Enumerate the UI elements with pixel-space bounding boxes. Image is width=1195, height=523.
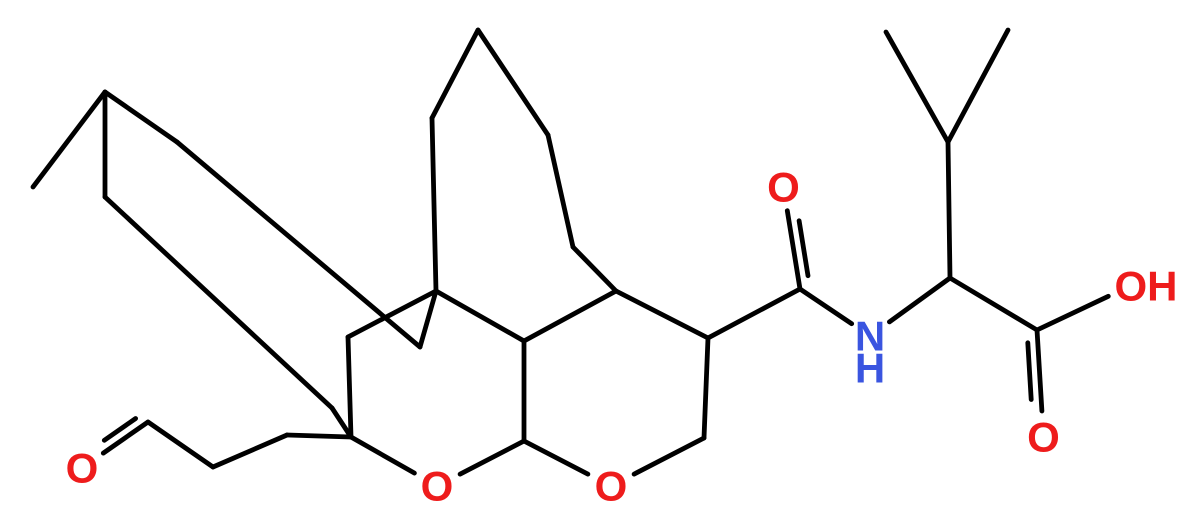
svg-text:O: O (421, 463, 454, 510)
bond Cy-Cx ring1 top edge (524, 291, 616, 341)
ketone C=O double bond (103, 419, 148, 454)
bond Capex-O2 (460, 441, 524, 474)
bond Capex-O3 (524, 441, 588, 474)
bond Clx-Cy ring2 top edge (436, 291, 524, 341)
bond C6-C5 long upper diagonal (177, 142, 420, 347)
amide C=O double bond (787, 211, 808, 289)
bond peak left vertical to Clx (432, 118, 436, 291)
bond acidC-OH (1037, 296, 1108, 330)
bond O3-Cr (634, 438, 704, 474)
bond C7-C6 (lambda right leg) (105, 92, 177, 142)
bond peak right mid segment (548, 135, 573, 247)
svg-text:O: O (767, 164, 800, 211)
bond Calpha-CH isopropyl stem (948, 142, 950, 278)
bond N-Calpha (889, 278, 950, 322)
bond peak right lower segment to Cx (573, 247, 616, 291)
bond Ca2-Cl (287, 435, 351, 437)
bond amideC-N (800, 289, 852, 324)
bond Cr-C1 ring1 right edge (704, 338, 708, 438)
bond C5-Clx connector (420, 291, 436, 347)
bond Ck-Ca1 zigzag (148, 422, 213, 467)
bond Cy-Capex shared vertical (522, 341, 527, 441)
bond Cl1-Clx ring2 upper-left edge (348, 291, 436, 337)
bond C7-C8 vertical (103, 92, 108, 197)
bond C1-amideC (708, 289, 800, 338)
bond Cx-C1 ring1 upper-right edge (616, 291, 708, 338)
bond Calpha-acidC (950, 278, 1037, 330)
bond peak left leg (432, 30, 478, 118)
bond CH-methyl right (948, 30, 1008, 142)
bond C7-methyl (top-left tip) (33, 92, 105, 187)
bond Ca1-Ca2 zigzag (213, 435, 287, 467)
bond C8-C9 long lower diagonal (105, 197, 332, 408)
svg-text:O: O (595, 463, 628, 510)
acid C=O double bond (1028, 330, 1042, 411)
bond peak right leg (478, 30, 548, 135)
bond C9-Cl connector (332, 408, 351, 437)
svg-text:O: O (1027, 414, 1060, 461)
svg-text:O: O (66, 445, 99, 492)
svg-text:H: H (855, 345, 885, 392)
svg-text:OH: OH (1115, 263, 1178, 310)
bond O2-Cl (351, 437, 414, 473)
bond Cl-Cl1 ring2 left edge (348, 337, 351, 437)
bond CH-methyl left (886, 32, 948, 142)
